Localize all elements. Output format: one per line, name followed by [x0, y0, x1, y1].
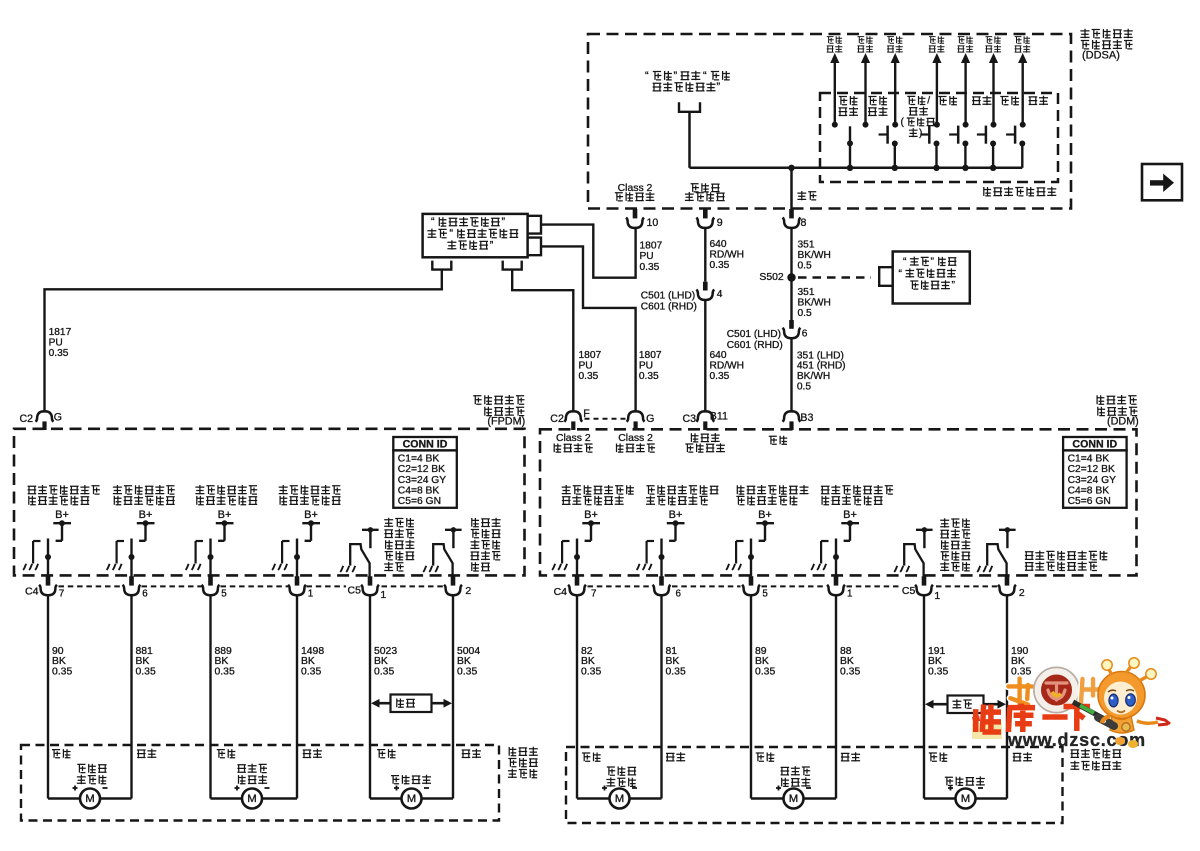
svg-text:2: 2: [1019, 587, 1025, 599]
svg-text:C2: C2: [20, 413, 34, 425]
switch FPDM mirror-up control: ground contact: [282, 541, 289, 564]
motor: passenger folding mirror motor: [370, 786, 453, 809]
svg-text:S502: S502: [759, 272, 783, 283]
svg-text:M: M: [789, 793, 799, 805]
connector pin 6: [653, 576, 682, 599]
svg-text:CONN ID: CONN ID: [1072, 439, 1117, 451]
svg-text:0.35: 0.35: [710, 260, 730, 271]
module box DDM (driver door module): [540, 429, 1137, 575]
ground: [977, 566, 980, 572]
module box FPDM (front passenger door module): [14, 429, 525, 576]
door control module box text: [899, 257, 957, 292]
CONN ID table FPDM: [393, 437, 457, 450]
watermark dzsc.com logo: [972, 658, 1170, 750]
switch DDM mirror-left control: B+ feed terminal: [582, 509, 600, 541]
door control module schematic reference box: [893, 252, 970, 304]
svg-text:1: 1: [847, 588, 852, 599]
svg-text:0.35: 0.35: [52, 667, 72, 678]
svg-text:B+: B+: [843, 509, 857, 521]
connector DDM pin B3: [783, 411, 814, 430]
DDM wire labels (circuit BK 0.35): [581, 646, 1031, 678]
wire label 1807 PU 0.35 (F): [579, 350, 602, 382]
svg-text:0.35: 0.35: [640, 262, 660, 273]
label horizontal motor (passenger): [77, 764, 107, 784]
svg-text:5: 5: [762, 588, 768, 599]
ground: [811, 564, 814, 570]
svg-text:640: 640: [710, 239, 727, 250]
svg-text:B3: B3: [800, 412, 813, 424]
svg-text:0.5: 0.5: [798, 261, 812, 272]
motor: passenger vertical mirror motor: [211, 786, 298, 809]
svg-text:(: (: [901, 117, 905, 128]
DDM top label: ground: [769, 436, 787, 445]
svg-text:C3=24 GY: C3=24 GY: [1068, 475, 1116, 486]
motor: driver vertical mirror motor: [751, 786, 836, 809]
svg-text:M: M: [961, 793, 971, 805]
switch FPDM mirror-right control: ground contact: [117, 541, 124, 564]
svg-text:7: 7: [59, 588, 64, 599]
DDSA bottom labels: battery positive voltage: [685, 183, 725, 201]
fold-retract name label (DDM): [940, 518, 970, 571]
svg-text:B+: B+: [584, 509, 598, 521]
label horizontal motor (driver): [606, 767, 636, 787]
svg-text:”: ”: [502, 216, 506, 228]
switch FPDM mirror fold-extend control: blade to ground: [433, 544, 452, 576]
label vertical motor (passenger): [237, 764, 267, 785]
label vertical motor (driver): [781, 766, 811, 787]
svg-text:0.35: 0.35: [581, 667, 601, 678]
svg-text:G: G: [646, 413, 654, 425]
svg-text:4: 4: [717, 289, 723, 300]
direction labels inside passenger mirror box: [52, 749, 481, 758]
label outside mirror driver side: [1070, 749, 1121, 770]
switch FPDM mirror-left control: B+ feed terminal: [53, 509, 71, 541]
ground: [726, 564, 729, 570]
ground: [107, 564, 110, 570]
svg-text:”: ”: [931, 257, 935, 268]
wires from DDM pins down to driver mirror: [577, 594, 1007, 798]
svg-text:1807: 1807: [640, 241, 663, 252]
svg-text:0.35: 0.35: [579, 371, 599, 382]
wire 640 RD/WH (DDSA pin 9 to DDM C3-B11): [704, 227, 706, 282]
connector pin 5: [202, 576, 228, 599]
switch DDM mirror-right control: switch blade wire: [659, 539, 665, 577]
svg-text:1: 1: [308, 588, 313, 599]
switch DDM mirror-up control: ground contact: [821, 541, 828, 564]
svg-text:351: 351: [798, 287, 815, 298]
wire 1807 PU (DLC upper bracket to DDSA pin 10): [541, 225, 636, 278]
connector DDM C3 pin B11: [683, 410, 728, 430]
switch DDM mirror fold-retract control: feed contact T: [916, 527, 933, 548]
svg-text:(DDSA): (DDSA): [1082, 50, 1120, 62]
wire label 1807 PU 0.35 (pin10): [640, 241, 663, 273]
svg-text:“: “: [450, 228, 454, 240]
svg-text:B+: B+: [758, 509, 772, 521]
switch FPDM mirror-right control: B+ feed terminal: [137, 509, 155, 541]
svg-text:C1=4 BK: C1=4 BK: [1068, 454, 1110, 465]
svg-text:0.35: 0.35: [639, 371, 659, 382]
switch FPDM mirror-down control: name label: [195, 485, 257, 505]
switch FPDM mirror-down control: switch blade wire: [208, 539, 214, 577]
motor: driver folding mirror motor: [924, 786, 1007, 809]
svg-text:PU: PU: [579, 360, 593, 371]
switch FPDM mirror fold-retract control: feed contact T: [362, 527, 379, 548]
switch DDM mirror-down control: switch blade wire: [748, 539, 754, 577]
DDM top labels: Class 2 serial data (F): [554, 433, 593, 453]
fold-extend name label (DDM): [1025, 551, 1108, 571]
svg-text:”: ”: [674, 70, 678, 82]
svg-text:0.35: 0.35: [374, 667, 394, 678]
switch DDM mirror-left control: switch blade wire: [574, 539, 580, 577]
C5 connector face dashes (DDM): [936, 585, 998, 587]
data link connector schematic reference box: [423, 214, 528, 257]
svg-text:Class 2: Class 2: [618, 433, 653, 444]
svg-text:C4=8 BK: C4=8 BK: [398, 485, 440, 496]
svg-text:7: 7: [591, 588, 596, 599]
DLC bottom stub B: [503, 261, 522, 270]
switch DDM mirror-down control: B+ feed terminal: [756, 509, 774, 541]
ground: [423, 566, 426, 572]
svg-text:“: “: [431, 216, 435, 228]
svg-text:0.35: 0.35: [840, 667, 860, 678]
svg-text:”: ”: [952, 280, 956, 291]
wire label 640 RD/WH 0.35 (lower): [710, 350, 745, 382]
ground: [894, 566, 897, 572]
ground: [340, 566, 343, 572]
wire label 1807 PU 0.35 (G): [639, 350, 662, 382]
ground: [23, 564, 26, 570]
svg-text:B+: B+: [139, 509, 153, 521]
svg-text:G: G: [54, 412, 62, 424]
wire label 351/451 BK/WH 0.5: [797, 350, 846, 392]
DDSA bottom label: ground: [797, 191, 816, 200]
direction labels inside driver mirror box: [582, 752, 1032, 761]
connector pin C5-2 (FPDM): [444, 576, 471, 597]
wire 1817 PU (DLC to FPDM C2-G): [45, 270, 442, 413]
svg-text:0.35: 0.35: [666, 667, 686, 678]
module label DDM: [1097, 395, 1139, 428]
switch DDM mirror fold-extend control: feed contact T: [999, 527, 1016, 548]
svg-text:C5=6 GN: C5=6 GN: [1068, 496, 1111, 507]
connector DDSA pin 10: [626, 209, 658, 229]
svg-text:PU: PU: [639, 360, 653, 371]
svg-text:C5: C5: [348, 585, 362, 597]
inner box: outside mirror switch: [820, 93, 1058, 182]
svg-text:C601 (RHD): C601 (RHD): [641, 302, 697, 313]
switch common bus wire: [690, 167, 1023, 170]
svg-text:6: 6: [142, 588, 148, 599]
svg-text:640: 640: [710, 350, 727, 361]
DDM top labels: battery positive voltage: [685, 433, 725, 452]
switch DDM mirror-up control: B+ feed terminal: [841, 509, 859, 541]
dashed reference link from S502: [798, 276, 871, 278]
svg-text:C2=12 BK: C2=12 BK: [398, 464, 445, 475]
C4 connector face dashes (FPDM): [59, 585, 347, 587]
DDM top labels: Class 2 serial data (G): [617, 433, 656, 453]
C2 connector face dashes F-G: [585, 418, 627, 420]
wire 1807 PU (DLC stub B to DDM C2-F): [512, 270, 573, 413]
connector pin 5: [742, 576, 768, 599]
switch DDM mirror-right control: name label: [646, 485, 718, 505]
svg-text:C501 (LHD): C501 (LHD): [641, 290, 695, 301]
switch DDM mirror fold-extend control: blade to ground: [987, 544, 1006, 576]
svg-text:1807: 1807: [579, 350, 602, 361]
svg-text:C3=24 GY: C3=24 GY: [398, 475, 446, 486]
switch FPDM mirror-left control: switch blade wire: [45, 539, 51, 577]
svg-text:B+: B+: [669, 509, 683, 521]
svg-text:M: M: [615, 793, 625, 805]
switch FPDM mirror fold-extend control: feed contact T: [445, 527, 462, 548]
bracket to door control module box: [879, 267, 893, 286]
svg-text:RD/WH: RD/WH: [710, 360, 745, 371]
svg-text:C4: C4: [25, 585, 39, 597]
mirror box: outside mirror - driver side: [566, 747, 1063, 823]
ground: [186, 564, 189, 570]
switch FPDM mirror-down control: B+ feed terminal: [216, 509, 234, 541]
switch FPDM mirror-down control: ground contact: [196, 541, 203, 564]
switch DDM mirror-left control: name label: [562, 485, 634, 505]
switch FPDM mirror-right control: switch blade wire: [129, 539, 135, 577]
connector DDSA pin 8: [783, 209, 807, 229]
switch DDM mirror-right control: B+ feed terminal: [667, 509, 685, 541]
svg-text:0.35: 0.35: [457, 667, 477, 678]
in-line connector C501/C601 pin 6: [783, 320, 808, 340]
svg-text:(FPDM): (FPDM): [487, 416, 525, 428]
switch FPDM mirror-right control: name label: [113, 485, 175, 505]
svg-text:C4: C4: [554, 586, 568, 598]
fold-extend name label (FPDM): [470, 518, 500, 571]
svg-text:M: M: [85, 793, 95, 805]
svg-text:C4=8 BK: C4=8 BK: [1068, 485, 1110, 496]
svg-text:C501 (LHD): C501 (LHD): [727, 329, 781, 340]
DLC bottom stub A: [432, 261, 451, 270]
switch DDM mirror-right control: ground contact: [647, 541, 654, 564]
switch FPDM mirror-up control: switch blade wire: [294, 539, 300, 577]
label outside mirror passenger side: [508, 747, 538, 778]
svg-text:BK/WH: BK/WH: [798, 298, 831, 309]
wire from window schematic stub to bus: [688, 112, 691, 168]
label C501 (LHD) / C601 (RHD) for pin 6: [727, 329, 783, 351]
svg-text:“: “: [703, 70, 707, 82]
svg-text:1: 1: [934, 590, 940, 602]
svg-text:0.35: 0.35: [710, 371, 730, 382]
svg-text:M: M: [407, 793, 417, 805]
ground: [272, 564, 275, 570]
splice S502: [759, 272, 795, 283]
connector pin C5-2 (DDM): [998, 576, 1025, 599]
svg-text:“: “: [645, 70, 649, 82]
CONN ID table DDM: [1063, 437, 1127, 450]
svg-text:0.5: 0.5: [798, 308, 812, 319]
motor: passenger horizontal mirror motor: [48, 786, 132, 809]
svg-text:9: 9: [717, 217, 723, 229]
Japan market tag (passenger fold wires): [371, 695, 452, 713]
svg-text:2: 2: [465, 585, 471, 597]
svg-text:351: 351: [798, 239, 815, 250]
selector switch blade: [849, 126, 851, 168]
bus junction dots: [788, 165, 996, 171]
svg-text:1807: 1807: [639, 350, 662, 361]
connector pin 6: [123, 576, 149, 599]
power window schematic reference text: [645, 70, 730, 93]
svg-text:“: “: [899, 268, 903, 279]
svg-text:0.35: 0.35: [136, 667, 156, 678]
svg-text:PU: PU: [49, 337, 63, 348]
wire label 351 BK/WH 0.5 (upper): [798, 239, 831, 271]
svg-text:5: 5: [221, 588, 227, 599]
switch DDM mirror-down control: name label: [736, 485, 808, 505]
svg-text:0.35: 0.35: [215, 667, 235, 678]
connector FPDM C2 pin G: [20, 411, 63, 430]
svg-text:C3: C3: [683, 413, 697, 425]
connector pin 1: [288, 576, 313, 599]
wire 351 BK/WH (DDSA pin 8 to DDM B3): [790, 227, 792, 320]
svg-text:C2=12 BK: C2=12 BK: [1068, 464, 1115, 475]
svg-text:0.5: 0.5: [797, 381, 811, 392]
connector pin 1: [827, 576, 852, 599]
svg-text:C5: C5: [902, 585, 916, 597]
switch FPDM mirror-up control: name label: [279, 485, 341, 505]
motor: driver horizontal mirror motor: [577, 786, 662, 809]
fold-retract name label (FPDM): [384, 518, 414, 572]
wire 1807 PU (DLC lower bracket to DDM C2-G): [541, 246, 636, 412]
svg-text:6: 6: [802, 329, 808, 340]
svg-text:”: ”: [717, 81, 721, 93]
svg-text:8: 8: [801, 217, 807, 229]
connector stub of window schematic: [679, 102, 700, 112]
label outside mirror switch: [984, 187, 1057, 197]
svg-text:C601 (RHD): C601 (RHD): [727, 340, 783, 351]
svg-text:0.35: 0.35: [301, 667, 321, 678]
label folding motor (driver): [945, 776, 985, 785]
svg-text:PU: PU: [640, 251, 654, 262]
svg-text:B11: B11: [710, 410, 728, 422]
svg-text:M: M: [247, 793, 257, 805]
wire label 1817 PU 0.35: [49, 327, 72, 359]
DDSA bottom labels: Class 2 serial data: [615, 183, 655, 201]
connector pin C5-1 (FPDM): [348, 576, 387, 601]
svg-text:B+: B+: [55, 509, 69, 521]
FPDM wire labels (circuit BK 0.35): [52, 646, 480, 678]
wires from FPDM pins down to passenger mirror: [48, 594, 453, 798]
Japan market tag (driver fold wires): [925, 696, 1006, 714]
svg-text:0.35: 0.35: [49, 348, 69, 359]
svg-text:0.35: 0.35: [928, 667, 948, 678]
mirror box: outside mirror - passenger side: [21, 745, 499, 821]
ground: [637, 564, 640, 570]
next-page arrow symbol: [1142, 164, 1182, 200]
svg-text:/: /: [927, 96, 930, 107]
svg-text:0.35: 0.35: [755, 667, 775, 678]
connector DDSA pin 9: [696, 209, 722, 229]
switch DDM mirror-down control: ground contact: [736, 541, 743, 564]
wire label 351 BK/WH 0.5 (below splice): [798, 287, 831, 319]
svg-text:Class 2: Class 2: [556, 433, 591, 444]
switch DDM mirror-up control: name label: [821, 485, 893, 505]
ground wire drop from bus to pin 8: [790, 168, 793, 210]
label DDSA: [1080, 29, 1132, 62]
switch FPDM mirror fold-retract control: blade to ground: [350, 544, 369, 576]
in-line connector C501/C601 pin 4: [696, 282, 722, 300]
DLC right bracket upper: [528, 216, 541, 234]
switch DDM mirror fold-retract control: blade to ground: [904, 544, 923, 576]
svg-text:(DDM): (DDM): [1107, 416, 1139, 428]
label C501 (LHD) / C601 (RHD) for pin 4: [641, 290, 697, 312]
switch name: fold/unfold (export): [901, 96, 935, 139]
switch FPDM mirror-up control: B+ feed terminal: [302, 509, 320, 541]
switch contact arrows to logic circuits (7x): [830, 53, 1027, 128]
switch FPDM mirror-left control: ground contact: [33, 541, 40, 564]
DLC box text: [427, 216, 518, 251]
svg-text:C5=6 GN: C5=6 GN: [398, 496, 441, 507]
label folding motor (passenger): [391, 775, 431, 784]
svg-text:CONN ID: CONN ID: [403, 439, 448, 451]
svg-text:RD/WH: RD/WH: [710, 249, 745, 260]
C5 connector face dashes (FPDM): [382, 585, 445, 587]
svg-text:“: “: [903, 257, 907, 268]
module label FPDM: [473, 395, 525, 428]
svg-text:Class 2: Class 2: [618, 183, 653, 194]
connector pin C5-1 (DDM): [902, 576, 941, 602]
logic circuit labels (7x): [827, 36, 1031, 52]
svg-text:10: 10: [647, 217, 659, 229]
connector pin 7: [39, 576, 64, 599]
svg-text:BK/WH: BK/WH: [797, 371, 830, 382]
DLC right bracket lower: [528, 238, 541, 256]
wire label 640 RD/WH 0.35 (upper): [710, 239, 745, 271]
svg-text:”: ”: [490, 239, 494, 251]
watermark mascot: [1073, 658, 1170, 748]
svg-text:B+: B+: [218, 509, 232, 521]
svg-text:BK/WH: BK/WH: [798, 250, 831, 261]
module box DDSA (driver door switch assembly): [588, 34, 1071, 209]
pushbutton switch drops with bridge contacts (5x): [879, 126, 1026, 168]
switch DDM mirror-left control: ground contact: [562, 541, 569, 564]
switch names: select-left / select-right: [839, 96, 888, 116]
C4 connector face dashes (DDM): [588, 585, 900, 587]
svg-text:1: 1: [380, 589, 386, 601]
svg-text:C2: C2: [550, 413, 564, 425]
switch FPDM mirror-left control: name label: [28, 485, 100, 505]
svg-text:B+: B+: [304, 509, 318, 521]
svg-text:C1=4 BK: C1=4 BK: [398, 454, 440, 465]
switch DDM mirror-up control: switch blade wire: [833, 539, 839, 577]
connector pin 7: [568, 576, 596, 599]
svg-text:6: 6: [676, 588, 682, 599]
svg-text:1817: 1817: [49, 327, 72, 338]
connector DDM C2 pin G: [627, 411, 655, 430]
switch names: up / down / left / right: [938, 96, 1048, 105]
connector DDM C2 pin F: [550, 408, 590, 430]
ground: [552, 564, 555, 570]
